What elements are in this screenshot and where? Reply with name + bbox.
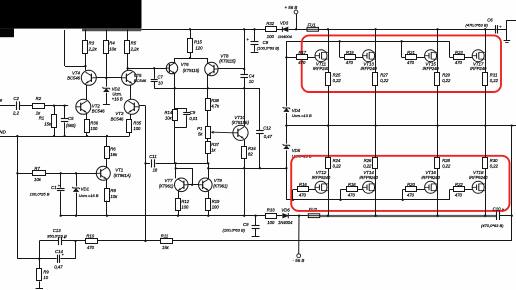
wire VT4-VT5 base link bbox=[96, 77, 121, 79]
svg-text:R34: R34 bbox=[248, 146, 256, 151]
resistor R19 100 bbox=[206, 191, 221, 217]
transistor VT6 KT9115 bbox=[166, 62, 200, 74]
svg-text:VT6: VT6 bbox=[181, 62, 189, 67]
svg-text:VD3: VD3 bbox=[280, 21, 289, 26]
wire R25 to output line bbox=[328, 85, 330, 125]
svg-text:0,47: 0,47 bbox=[54, 265, 63, 270]
svg-text:470: 470 bbox=[407, 193, 415, 198]
fuse FU1 bbox=[307, 23, 319, 32]
svg-text:R7: R7 bbox=[34, 166, 40, 171]
wire VT6 emitter chain R14/C3 bbox=[175, 88, 187, 164]
wire VT6 collector down bbox=[174, 74, 176, 89]
capacitor C3 0,01 bbox=[183, 109, 197, 128]
transistor VT16 IRFP9240 bbox=[421, 170, 440, 193]
wire C4 / VT10 collector vertical bbox=[243, 28, 245, 126]
svg-text:100: 100 bbox=[133, 126, 141, 131]
capacitor C4 10 bbox=[240, 73, 255, 84]
svg-text:10к: 10к bbox=[110, 194, 118, 199]
wire VT8 base to C4 node bbox=[218, 68, 245, 70]
svg-text:C5: C5 bbox=[68, 116, 74, 121]
wire R7 line bbox=[16, 172, 32, 174]
svg-text:18: 18 bbox=[153, 167, 158, 172]
resistor R10 470 bbox=[86, 234, 98, 250]
svg-text:R8: R8 bbox=[110, 188, 116, 193]
svg-text:R16: R16 bbox=[299, 182, 307, 187]
svg-text:470: 470 bbox=[346, 60, 354, 65]
svg-text:470: 470 bbox=[407, 60, 415, 65]
svg-text:10: 10 bbox=[249, 79, 254, 84]
wire +56V rail thick segment under box bbox=[82, 29, 141, 32]
wire VAS bias link y168 bbox=[207, 167, 287, 169]
svg-text:C10: C10 bbox=[493, 207, 501, 212]
svg-text:C12: C12 bbox=[263, 126, 271, 131]
resistor R11 15k bbox=[161, 234, 173, 250]
capacitor C7 10 bbox=[151, 68, 164, 88]
svg-text:IRFP240: IRFP240 bbox=[423, 66, 440, 71]
svg-text:R15: R15 bbox=[194, 40, 202, 45]
svg-text:470: 470 bbox=[298, 60, 306, 65]
transistor VT17 IRFP240 bbox=[470, 50, 487, 71]
svg-text:(100,0*63 В): (100,0*63 В) bbox=[223, 227, 246, 232]
wire VT7 collector up bbox=[175, 163, 177, 178]
resistor R31 0,22 bbox=[483, 73, 499, 86]
svg-text:R3: R3 bbox=[89, 41, 95, 46]
svg-text:C6: C6 bbox=[487, 17, 493, 22]
resistor R29 0,22 bbox=[435, 73, 452, 86]
wire -56V rail thick segment bbox=[319, 215, 496, 217]
svg-text:- 56 В: - 56 В bbox=[293, 258, 305, 263]
svg-text:R29: R29 bbox=[442, 73, 450, 78]
wire R2 to VT2 base bbox=[45, 105, 69, 107]
resistor R36 100 bbox=[85, 114, 99, 136]
resistor R24 0,22 bbox=[326, 158, 342, 169]
resistor R16 470 bbox=[293, 182, 316, 200]
wire VT14 drain to -56V rail bbox=[374, 169, 376, 217]
wire VT9 collector up bbox=[208, 163, 210, 178]
capacitor C9 100,0x63V bbox=[223, 215, 260, 237]
svg-text:R4: R4 bbox=[109, 41, 115, 46]
wire VT15 drain from +56V rail bbox=[436, 28, 438, 73]
diode VD6 1N4004 bbox=[278, 207, 293, 225]
svg-text:IRFP240: IRFP240 bbox=[470, 66, 487, 71]
svg-text:+ 56 В: + 56 В bbox=[285, 5, 298, 10]
resistor R23 470 bbox=[450, 41, 473, 65]
transistor VT7 KT961 bbox=[159, 178, 188, 192]
resistor R15 120 bbox=[188, 28, 204, 59]
svg-text:(КТ9115): (КТ9115) bbox=[183, 68, 200, 73]
svg-text:(КТ961А): (КТ961А) bbox=[114, 173, 132, 178]
wire VT18 source up bbox=[485, 126, 487, 158]
svg-text:(КТ961): (КТ961) bbox=[159, 184, 174, 189]
svg-text:R27: R27 bbox=[380, 73, 388, 78]
wire VT12 drain to -56V rail bbox=[327, 169, 329, 217]
svg-text:82: 82 bbox=[248, 152, 253, 157]
resistor R38 4,7k bbox=[206, 88, 221, 126]
svg-text:0,22: 0,22 bbox=[442, 163, 451, 168]
svg-text:R22: R22 bbox=[455, 182, 463, 187]
svg-text:R10: R10 bbox=[86, 234, 94, 239]
svg-text:R32: R32 bbox=[266, 21, 274, 26]
resistor R37 1k bbox=[206, 138, 220, 165]
resistor R21 470 bbox=[402, 41, 425, 65]
svg-text:470: 470 bbox=[455, 60, 463, 65]
svg-text:R36: R36 bbox=[90, 121, 98, 126]
wire VT13 drain from +56V rail bbox=[374, 28, 376, 73]
svg-text:R35: R35 bbox=[133, 121, 141, 126]
svg-text:IRFP240: IRFP240 bbox=[361, 66, 378, 71]
svg-text:0,22: 0,22 bbox=[490, 78, 499, 83]
svg-text:C9: C9 bbox=[190, 110, 196, 115]
svg-text:0,22: 0,22 bbox=[490, 163, 499, 168]
transistor VT8 KT9115 bbox=[205, 53, 237, 75]
terminal -56 V bbox=[293, 215, 305, 263]
svg-text:0,22: 0,22 bbox=[333, 163, 342, 168]
wire bias string vertical bbox=[285, 41, 287, 200]
svg-text:R12: R12 bbox=[181, 199, 189, 204]
wire VT11 drain from +56V rail bbox=[327, 28, 329, 73]
svg-text:VD6: VD6 bbox=[281, 207, 290, 212]
resistor R2 1k bbox=[33, 96, 45, 116]
svg-text:FU1: FU1 bbox=[308, 23, 317, 28]
wire GND rail bbox=[0, 135, 130, 137]
wire upper gate line bbox=[286, 40, 449, 42]
svg-text:2,2к: 2,2к bbox=[130, 46, 140, 51]
svg-text:0,22: 0,22 bbox=[442, 78, 451, 83]
wire VT5 to VT3 bbox=[130, 85, 132, 99]
wire VT4 to VT2 bbox=[86, 85, 88, 99]
resistor R19 470 bbox=[340, 41, 363, 65]
svg-text:C2: C2 bbox=[13, 96, 19, 101]
transistor VT3 BC546 bbox=[111, 99, 140, 121]
svg-text:R37: R37 bbox=[211, 142, 219, 147]
transistor VT2 BC546 bbox=[76, 99, 105, 114]
node GND bbox=[0, 129, 7, 134]
terminal +56 V bbox=[285, 5, 298, 30]
wire VT16 drain to -56V rail bbox=[436, 169, 438, 217]
svg-text:VT7: VT7 bbox=[165, 178, 174, 183]
wire VT14 source up bbox=[375, 126, 377, 158]
resistor R3 2,2k bbox=[83, 29, 98, 70]
resistor R14 10k bbox=[165, 110, 178, 121]
wire C13/C14 left node bbox=[38, 241, 40, 260]
svg-text:100: 100 bbox=[181, 204, 189, 209]
resistor R25 0,22 bbox=[326, 73, 342, 86]
resistor R6 16k bbox=[105, 136, 118, 168]
svg-text:+16 В: +16 В bbox=[112, 97, 123, 102]
resistor R20 470 bbox=[403, 182, 425, 200]
svg-text:(470,0*63 В): (470,0*63 В) bbox=[481, 223, 504, 228]
svg-text:R6: R6 bbox=[110, 147, 116, 152]
transistor VT5 BC546 bbox=[122, 70, 147, 85]
svg-text:470: 470 bbox=[455, 193, 463, 198]
resistor R33 bbox=[266, 207, 277, 225]
capacitor C12 0,47 bbox=[256, 88, 273, 168]
resistor R1 15k bbox=[39, 106, 57, 136]
svg-text:IRFP240: IRFP240 bbox=[313, 66, 330, 71]
resistor R22 470 bbox=[449, 182, 472, 200]
wire bottom feedback rail bbox=[39, 240, 511, 242]
svg-text:0,47: 0,47 bbox=[264, 134, 273, 139]
svg-text:R1: R1 bbox=[39, 116, 45, 121]
svg-text:R28: R28 bbox=[442, 158, 450, 163]
svg-text:10к: 10к bbox=[109, 46, 117, 51]
svg-text:0,22: 0,22 bbox=[380, 78, 389, 83]
wire VT7 to VT9 base corner bbox=[175, 167, 193, 184]
svg-text:R9: R9 bbox=[43, 269, 49, 274]
wire C13/C14 right node bbox=[75, 241, 77, 259]
wire R27 to output line bbox=[375, 85, 377, 125]
black redaction box top-left bbox=[0, 0, 142, 29]
svg-text:0,01: 0,01 bbox=[189, 116, 197, 121]
wire output line bbox=[286, 124, 516, 126]
svg-text:C1: C1 bbox=[51, 185, 57, 190]
wire VT7 VT9 base link bbox=[188, 184, 198, 186]
svg-text:(КТ815Б): (КТ815Б) bbox=[232, 120, 250, 125]
svg-text:R2: R2 bbox=[36, 96, 42, 101]
resistor R8 10k bbox=[105, 179, 119, 217]
capacitor C13 350,0x10V bbox=[47, 228, 67, 245]
svg-text:100: 100 bbox=[267, 220, 275, 225]
zener VD4 Ust=13V bbox=[283, 107, 312, 118]
svg-text:100: 100 bbox=[212, 204, 220, 209]
transistor VT1 KT961A bbox=[96, 166, 131, 180]
wire VT12 source up bbox=[328, 126, 330, 158]
svg-text:(560): (560) bbox=[66, 123, 76, 128]
svg-text:Uст.=13 В: Uст.=13 В bbox=[292, 113, 312, 118]
resistor R12 100 bbox=[176, 191, 190, 217]
wire input to R2 bbox=[19, 105, 33, 107]
svg-text:470: 470 bbox=[299, 193, 307, 198]
svg-text:1N4004: 1N4004 bbox=[278, 220, 293, 225]
svg-text:+: + bbox=[246, 37, 249, 42]
svg-text:R21: R21 bbox=[407, 50, 415, 55]
wire R29 to output line bbox=[437, 85, 439, 125]
svg-text:C11: C11 bbox=[149, 154, 157, 159]
capacitor C14 0,47 bbox=[54, 249, 64, 270]
transistor VT10 KT815B bbox=[232, 115, 250, 140]
resistor R7 10k bbox=[33, 166, 46, 182]
wire rail drop to VT4 collector bbox=[65, 30, 87, 67]
svg-text:R33: R33 bbox=[267, 207, 275, 212]
svg-text:C13: C13 bbox=[53, 228, 61, 233]
wire output right vertical bbox=[511, 126, 513, 241]
svg-text:R19: R19 bbox=[346, 50, 354, 55]
resistor R35 100 bbox=[127, 114, 142, 136]
svg-text:0,22: 0,22 bbox=[363, 163, 372, 168]
resistor R9 10 bbox=[36, 259, 50, 289]
wire VT8 collector down bbox=[207, 75, 209, 89]
wire left vertical bbox=[17, 136, 19, 259]
wire -56V rail bbox=[61, 215, 308, 217]
svg-text:VD1: VD1 bbox=[81, 186, 90, 191]
resistor R18 470 bbox=[341, 182, 363, 200]
svg-text:C9: C9 bbox=[243, 222, 249, 227]
svg-text:1N4004: 1N4004 bbox=[278, 34, 293, 39]
wire R31 to output line bbox=[485, 85, 487, 125]
svg-text:4,7к: 4,7к bbox=[211, 103, 220, 108]
wire driver line y163 bbox=[146, 163, 209, 165]
wire C14 branch bbox=[17, 258, 75, 260]
svg-text:R38: R38 bbox=[211, 98, 219, 103]
resistor R5 2,2k bbox=[125, 29, 140, 70]
transistor VT12 IRFP9240 bbox=[312, 170, 331, 193]
svg-text:R20: R20 bbox=[407, 182, 415, 187]
red highlight box upper bbox=[302, 35, 501, 92]
svg-text:100: 100 bbox=[267, 34, 275, 39]
svg-text:R18: R18 bbox=[348, 182, 356, 187]
wire VT3 base feedback node bbox=[139, 106, 146, 243]
svg-text:BC546: BC546 bbox=[67, 76, 80, 81]
resistor R34 82 bbox=[242, 140, 257, 217]
svg-text:BC546: BC546 bbox=[134, 78, 147, 83]
svg-text:R14: R14 bbox=[165, 110, 173, 115]
svg-text:BC546: BC546 bbox=[92, 109, 105, 114]
svg-text:C4: C4 bbox=[249, 73, 255, 78]
svg-text:R11: R11 bbox=[161, 234, 168, 239]
zener VD2 Ust +16V bbox=[103, 79, 123, 105]
svg-text:0,22: 0,22 bbox=[333, 78, 342, 83]
wire VT5 collector to VT6 base bbox=[126, 67, 166, 69]
wire mid line y88 bbox=[154, 87, 260, 89]
svg-text:R17: R17 bbox=[298, 50, 306, 55]
wire VT16 source up bbox=[437, 126, 439, 158]
svg-text:P1: P1 bbox=[197, 126, 203, 131]
wire VT6 VT8 top link bbox=[175, 58, 208, 63]
node input bbox=[0, 97, 15, 105]
capacitor C8 100,0x63V bbox=[246, 28, 280, 52]
svg-text:C8: C8 bbox=[263, 40, 269, 45]
svg-text:(470,0*63 В): (470,0*63 В) bbox=[465, 23, 488, 28]
transistor VT4 BC546 bbox=[67, 70, 96, 85]
svg-text:15к: 15к bbox=[44, 121, 52, 126]
capacitor C10 470,0x63V bbox=[481, 207, 513, 228]
resistor R26 0,22 bbox=[363, 158, 377, 169]
svg-text:R23: R23 bbox=[455, 50, 463, 55]
svg-text:470: 470 bbox=[348, 193, 356, 198]
wire R17 feed from bias string bbox=[286, 57, 296, 59]
resistor R4 10k bbox=[104, 29, 118, 78]
wire lower gate line bbox=[286, 199, 449, 201]
svg-text:C7: C7 bbox=[157, 74, 163, 79]
transistor VT18 IRFP9240 bbox=[469, 170, 488, 193]
svg-text:R24: R24 bbox=[333, 158, 341, 163]
resistor R28 0,22 bbox=[435, 158, 452, 169]
resistor R17 470 bbox=[297, 50, 316, 65]
svg-text:Uст.=16 В: Uст.=16 В bbox=[79, 193, 99, 198]
svg-text:R5: R5 bbox=[131, 41, 137, 46]
svg-text:2,2: 2,2 bbox=[12, 110, 20, 115]
svg-text:120: 120 bbox=[195, 46, 203, 51]
diode VD3 1N4004 bbox=[278, 21, 293, 39]
svg-text:100: 100 bbox=[90, 126, 98, 131]
fuse FU2 bbox=[308, 207, 319, 218]
svg-text:2,2к: 2,2к bbox=[88, 46, 98, 51]
svg-text:(КТ9115): (КТ9115) bbox=[219, 59, 236, 64]
svg-text:(КТ961): (КТ961) bbox=[213, 184, 228, 189]
capacitor C11 18 bbox=[149, 154, 158, 172]
capacitor C2 2,2 bbox=[12, 96, 20, 116]
wire R7 to VT1 base bbox=[45, 172, 96, 174]
capacitor C1 100,0x25V bbox=[30, 173, 65, 217]
svg-text:R30: R30 bbox=[490, 158, 498, 163]
zener VD1 Ust=16V bbox=[72, 173, 99, 217]
svg-text:R26: R26 bbox=[364, 158, 372, 163]
svg-text:VT1: VT1 bbox=[115, 168, 124, 173]
svg-text:100,0*25 В: 100,0*25 В bbox=[30, 191, 50, 196]
resistor R27 0,22 bbox=[373, 73, 390, 86]
transistor VT9 KT961 bbox=[199, 178, 229, 192]
svg-text:R31: R31 bbox=[490, 73, 498, 78]
red highlight box lower bbox=[291, 156, 509, 211]
black redaction block left edge bbox=[0, 29, 14, 38]
svg-text:GND: GND bbox=[0, 129, 7, 134]
wire +56V rail bbox=[141, 29, 496, 31]
potentiometer P1 5k bbox=[197, 126, 233, 139]
capacitor C6 470,0x63V top right bbox=[465, 17, 516, 42]
transistor VT15 IRFP240 bbox=[423, 50, 440, 71]
svg-text:VT9: VT9 bbox=[214, 178, 223, 183]
transistor VT14 IRFP9240 bbox=[359, 170, 378, 193]
svg-text:10: 10 bbox=[158, 81, 163, 86]
capacitor C5 560 bbox=[61, 106, 76, 136]
zener VD5 Ust=13V bbox=[283, 144, 312, 158]
wire VT17 drain from +56V rail bbox=[484, 28, 486, 73]
svg-text:10к: 10к bbox=[34, 177, 42, 182]
resistor R30 0,22 bbox=[483, 158, 499, 169]
svg-text:BC546: BC546 bbox=[111, 116, 124, 121]
svg-text:R19: R19 bbox=[212, 199, 220, 204]
svg-text:(100,0*63 В): (100,0*63 В) bbox=[257, 45, 280, 50]
svg-text:10к: 10к bbox=[165, 115, 173, 120]
svg-text:15к: 15к bbox=[162, 245, 170, 250]
transistor VT11 IRFP240 bbox=[313, 50, 330, 71]
svg-text:470: 470 bbox=[87, 245, 95, 250]
resistor R32 bbox=[266, 21, 277, 39]
wire VT18 drain to -56V rail bbox=[484, 169, 486, 217]
svg-text:10: 10 bbox=[43, 275, 48, 280]
svg-text:R25: R25 bbox=[333, 73, 341, 78]
transistor VT13 IRFP240 bbox=[361, 50, 378, 71]
svg-text:16к: 16к bbox=[110, 152, 118, 157]
